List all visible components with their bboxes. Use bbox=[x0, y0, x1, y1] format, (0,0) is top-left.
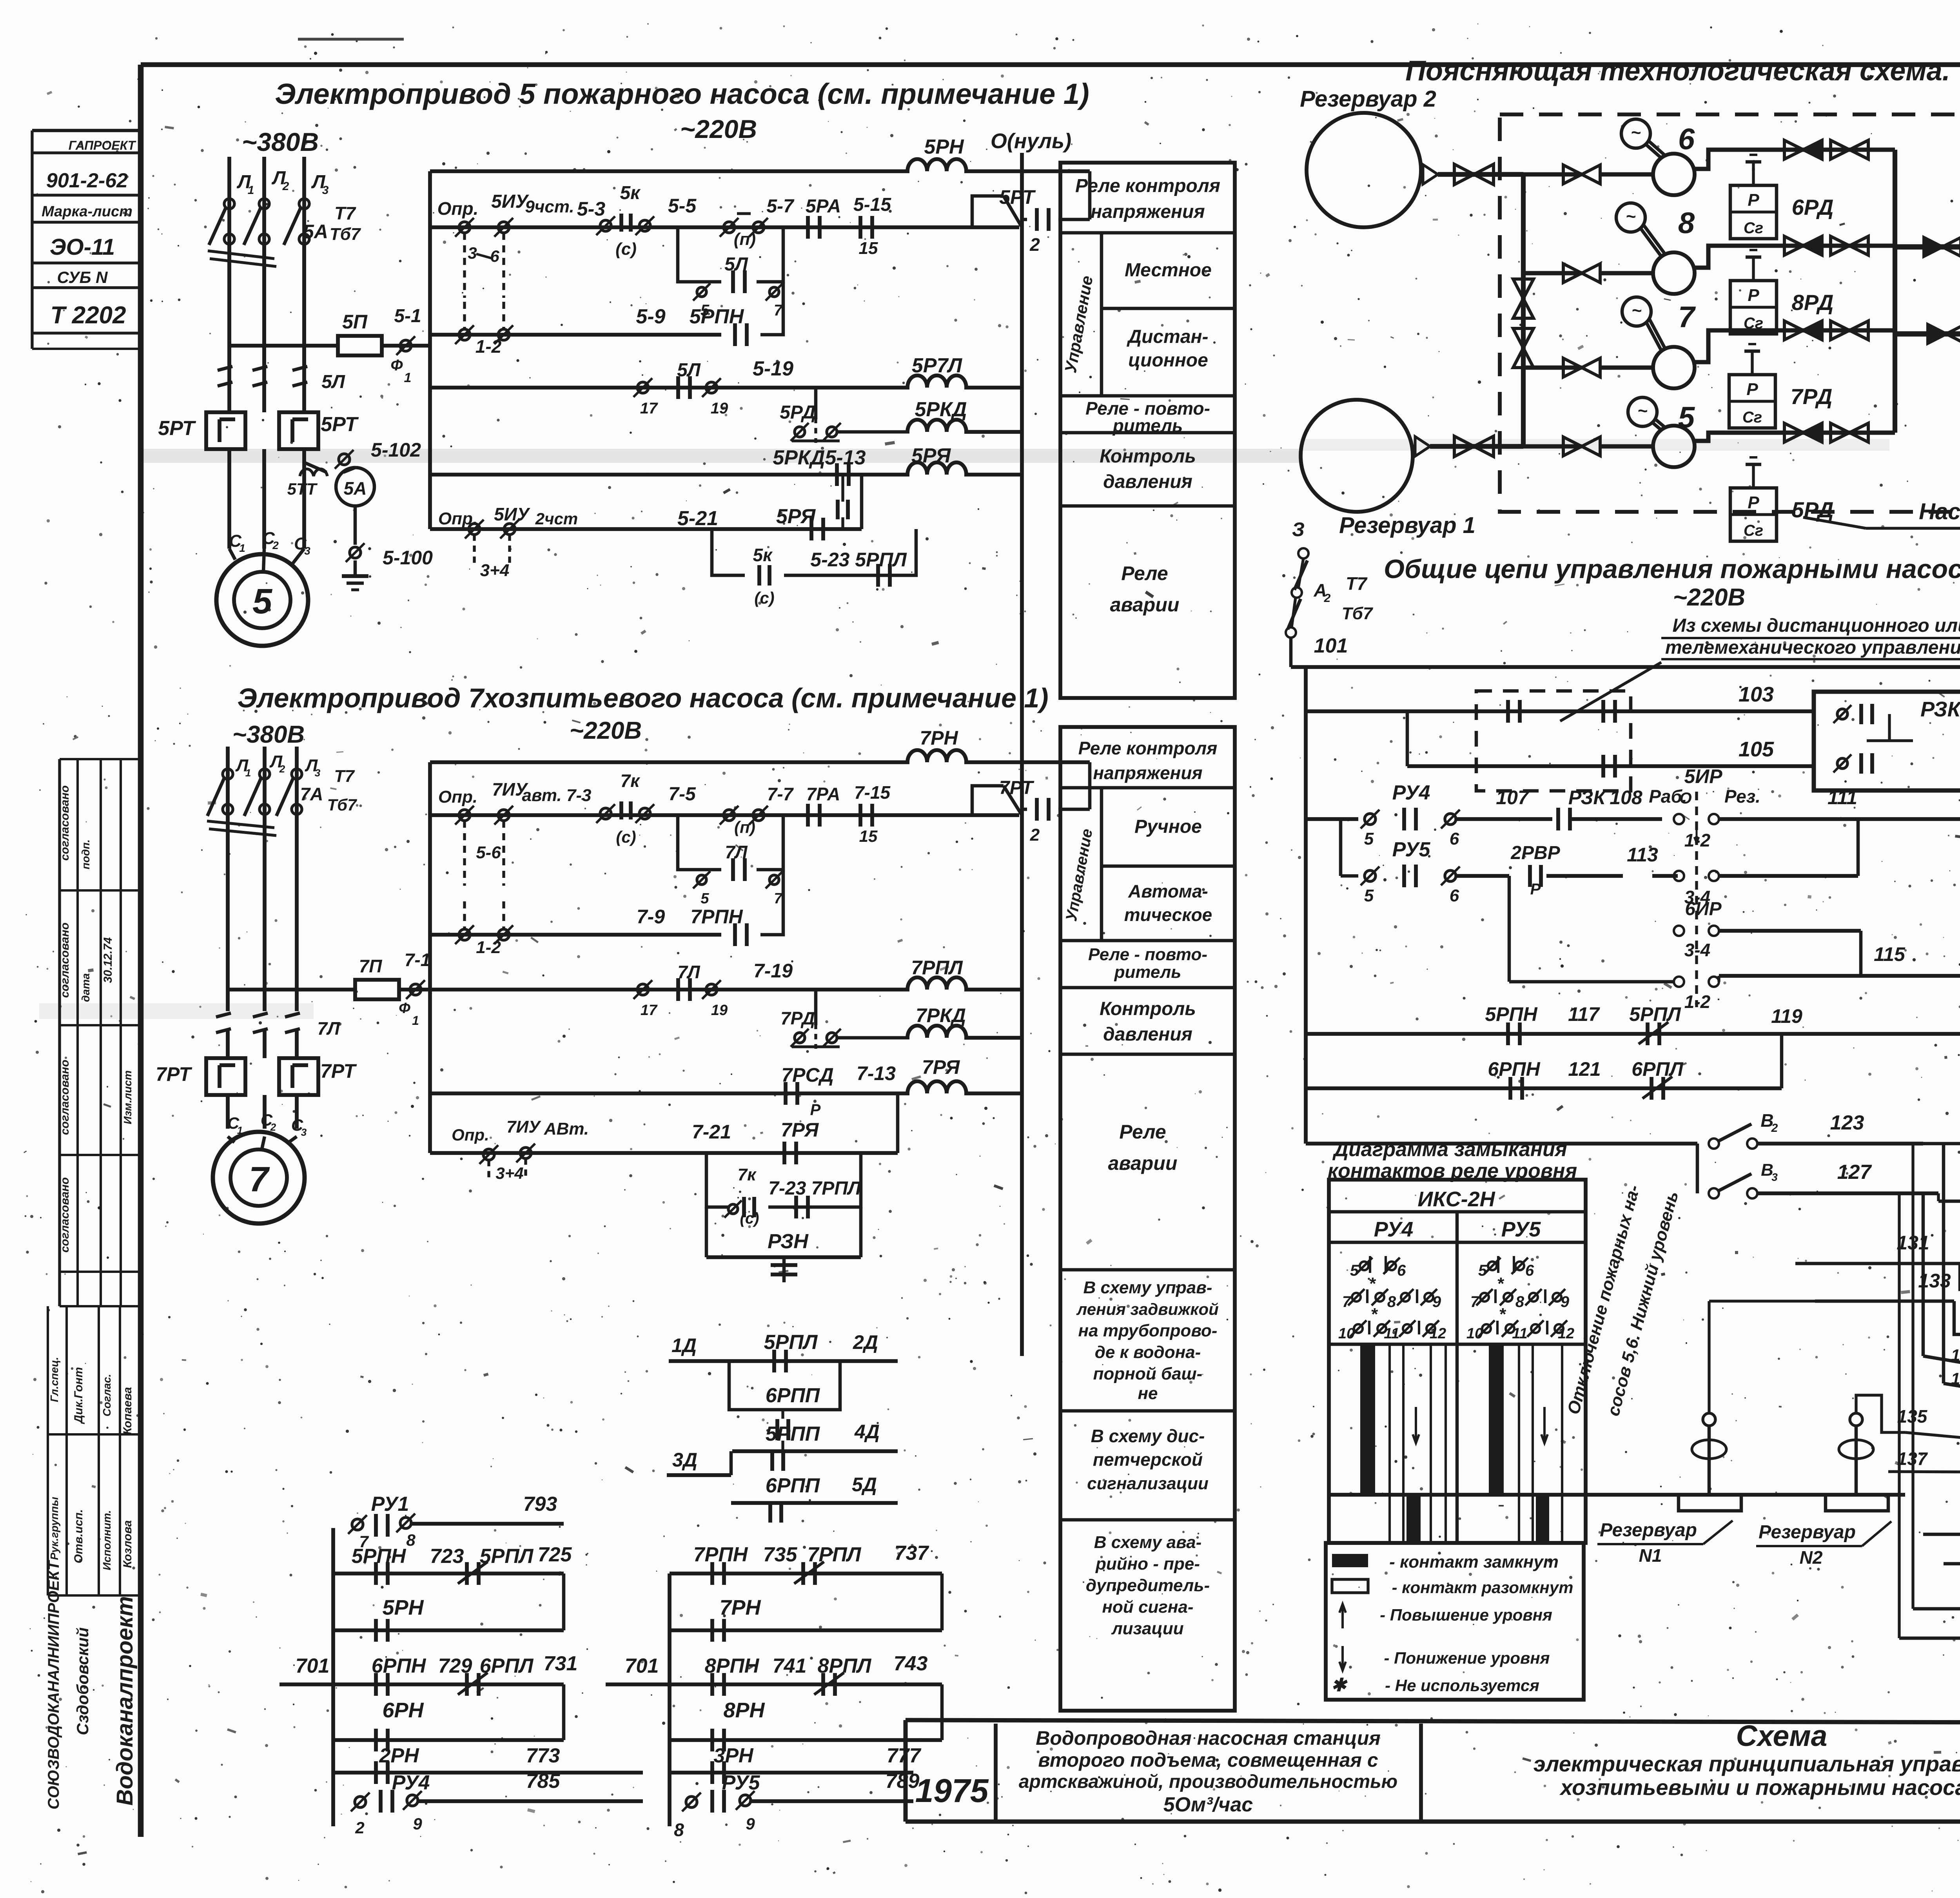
svg-text:~: ~ bbox=[1626, 207, 1636, 226]
stub 3D bbox=[667, 1473, 731, 1477]
svg-text:5РТ: 5РТ bbox=[158, 417, 196, 440]
reference lines to RU3 bbox=[1923, 1533, 1960, 1536]
svg-text:напряжения: напряжения bbox=[1093, 763, 1202, 783]
svg-text:Автома-: Автома- bbox=[1128, 881, 1208, 901]
svg-text:2: 2 bbox=[1771, 1122, 1778, 1135]
svg-text:7РЯ: 7РЯ bbox=[922, 1056, 960, 1078]
svg-text:5-3: 5-3 bbox=[577, 198, 605, 220]
rung RU1 793 bbox=[352, 1519, 363, 1530]
motor 5 outer circle bbox=[216, 554, 308, 646]
wire drop to 5RT contact bbox=[1088, 171, 1092, 219]
svg-text:723: 723 bbox=[430, 1545, 464, 1568]
ladder7 rung4 bbox=[430, 1151, 898, 1155]
motor 5 circle bbox=[1628, 397, 1657, 426]
svg-text:6РПЛ: 6РПЛ bbox=[1632, 1058, 1684, 1080]
svg-text:5П: 5П bbox=[342, 311, 368, 333]
svg-text:5Ом³/час: 5Ом³/час bbox=[1163, 1793, 1253, 1816]
svg-text:5ИР: 5ИР bbox=[1684, 765, 1722, 787]
svg-text:Марка-лист: Марка-лист bbox=[42, 203, 132, 220]
ladder5 top rail bbox=[430, 169, 909, 173]
IKS chart arrows bbox=[1413, 1407, 1419, 1443]
svg-text:7РТ: 7РТ bbox=[156, 1063, 192, 1085]
svg-text:ционное: ционное bbox=[1128, 350, 1208, 371]
rung1 contact (p) pump7 bbox=[724, 810, 735, 821]
svg-text:7-5: 7-5 bbox=[668, 784, 696, 805]
current transformer 5TT bbox=[304, 462, 327, 472]
impulse line 7РД bbox=[1751, 351, 1753, 375]
svg-text:5: 5 bbox=[1350, 1262, 1359, 1279]
branch 5RD bbox=[814, 388, 818, 419]
svg-text:117: 117 bbox=[1568, 1003, 1600, 1025]
svg-text:7-7: 7-7 bbox=[767, 784, 794, 804]
wire 5RD to coil 5RKD bbox=[837, 430, 909, 434]
svg-text:P: P bbox=[1748, 493, 1759, 512]
svg-text:5-21: 5-21 bbox=[677, 507, 718, 530]
svg-text:~380В: ~380В bbox=[242, 127, 319, 156]
branch 7RN bbox=[940, 1574, 944, 1630]
wire phases lower pump5 bbox=[227, 244, 231, 364]
svg-text:де к водона-: де к водона- bbox=[1095, 1343, 1201, 1362]
svg-text:5-19: 5-19 bbox=[753, 357, 793, 380]
rung 107 RU4 bbox=[1306, 817, 1358, 821]
svg-text:5: 5 bbox=[1478, 1262, 1487, 1279]
branch 5k seal rung bbox=[712, 529, 745, 575]
annotation cell upravlenie pump7 bbox=[1100, 788, 1103, 941]
float switch reservoir1 wires bbox=[1708, 1301, 1710, 1413]
svg-text:2: 2 bbox=[1029, 234, 1040, 255]
svg-text:7РПН: 7РПН bbox=[693, 1543, 748, 1566]
rung 105 bbox=[1407, 764, 1814, 768]
svg-text:Т7: Т7 bbox=[1346, 573, 1368, 594]
svg-text:7ИУ: 7ИУ bbox=[506, 1117, 541, 1137]
rail 101 and left rail E bbox=[1289, 638, 1293, 667]
pump 6 suction valve bbox=[1523, 172, 1582, 177]
svg-text:5ИУ: 5ИУ bbox=[494, 504, 531, 524]
svg-text:7Л: 7Л bbox=[317, 1018, 340, 1039]
rung 5RPP 4D bbox=[732, 1449, 898, 1453]
line 133 bbox=[1815, 1300, 1954, 1303]
pump 7 discharge bbox=[1693, 330, 1895, 362]
svg-text:8: 8 bbox=[406, 1531, 416, 1549]
svg-text:P: P bbox=[1748, 190, 1759, 210]
svg-text:111: 111 bbox=[1828, 787, 1857, 809]
branch 7k seal rung bbox=[706, 1153, 730, 1207]
pump 5 discharge gate valve bbox=[1831, 423, 1849, 442]
svg-text:5: 5 bbox=[701, 890, 709, 907]
long verticals from 123 125 bbox=[1911, 1144, 1914, 1609]
rung 3RN 777 bbox=[670, 1771, 913, 1775]
svg-text:7Л: 7Л bbox=[725, 842, 748, 862]
svg-text:735: 735 bbox=[763, 1543, 798, 1566]
svg-text:Резервуар 1: Резервуар 1 bbox=[1339, 513, 1475, 538]
svg-text:СОЮЗВОДОКАНАЛНИИПРОЕКТ: СОЮЗВОДОКАНАЛНИИПРОЕКТ bbox=[45, 1559, 62, 1809]
rung 7RPN 735 7RPL 737 bbox=[670, 1572, 942, 1575]
svg-text:Сздобовский: Сздобовский bbox=[73, 1627, 92, 1735]
svg-text:тическое: тическое bbox=[1124, 905, 1212, 925]
svg-text:793: 793 bbox=[523, 1493, 557, 1515]
svg-text:3+4: 3+4 bbox=[480, 561, 510, 580]
svg-text:7к: 7к bbox=[738, 1165, 757, 1184]
svg-text:Ручное: Ручное bbox=[1134, 816, 1202, 837]
svg-text:2: 2 bbox=[279, 763, 285, 775]
svg-text:6: 6 bbox=[490, 247, 499, 265]
svg-text:Сг: Сг bbox=[1744, 219, 1763, 237]
svg-text:1-2: 1-2 bbox=[1684, 992, 1711, 1012]
svg-text:5Л: 5Л bbox=[724, 254, 748, 275]
svg-text:2: 2 bbox=[272, 539, 279, 551]
svg-text:901-2-62: 901-2-62 bbox=[46, 169, 128, 192]
relay coil 5RYA bbox=[907, 462, 966, 475]
output pipe 2 dy150 bbox=[1895, 331, 1960, 336]
svg-text:6РД: 6РД bbox=[1792, 195, 1834, 219]
svg-text:3+4: 3+4 bbox=[495, 1164, 523, 1182]
svg-text:электрическая принципиальная: электрическая принципиальная управления bbox=[1534, 1751, 1960, 1776]
motor 5 inner circle bbox=[234, 572, 290, 628]
svg-text:сигнализации: сигнализации bbox=[1087, 1474, 1209, 1493]
pump 8 discharge check valve bbox=[1784, 236, 1803, 255]
svg-text:Из схемы дистанционного или: Из схемы дистанционного или bbox=[1672, 615, 1960, 636]
pressure relay box 8РД bbox=[1730, 281, 1777, 334]
svg-text:2: 2 bbox=[355, 1818, 364, 1837]
motor 6 circle bbox=[1621, 119, 1650, 148]
rung 115 coil 6RPN bbox=[1719, 974, 1960, 978]
motor 6 shaft bbox=[1645, 144, 1662, 159]
svg-text:731: 731 bbox=[544, 1652, 578, 1675]
svg-text:7-19: 7-19 bbox=[753, 960, 793, 982]
rung 2RN 773 bbox=[333, 1771, 643, 1775]
pump 7 suction valve bbox=[1523, 366, 1582, 370]
svg-text:15: 15 bbox=[859, 827, 878, 845]
svg-text:701: 701 bbox=[296, 1655, 330, 1677]
svg-text:5РН: 5РН bbox=[924, 136, 964, 158]
svg-text:Сг: Сг bbox=[1744, 522, 1763, 539]
svg-text:701: 701 bbox=[625, 1655, 659, 1677]
svg-text:5-6: 5-6 bbox=[476, 843, 501, 862]
svg-text:725: 725 bbox=[538, 1543, 572, 1566]
svg-text:Опр.: Опр. bbox=[452, 1126, 489, 1144]
svg-text:Реле: Реле bbox=[1119, 1121, 1166, 1143]
relay coil 7RYA bbox=[907, 1081, 966, 1093]
svg-text:лизации: лизации bbox=[1111, 1619, 1183, 1638]
knife switch 5AT bbox=[224, 199, 234, 209]
svg-text:1: 1 bbox=[412, 1013, 419, 1028]
IKS subheader RU4 RU5 bbox=[1455, 1212, 1459, 1543]
svg-text:107: 107 bbox=[1496, 787, 1530, 809]
svg-text:6: 6 bbox=[1525, 1262, 1534, 1279]
branch 8RN bbox=[940, 1684, 944, 1740]
branch 7L parallel bbox=[678, 815, 721, 870]
rung1 contact opr bbox=[459, 222, 470, 233]
ladder5 rung2 5L 5-19 bbox=[430, 386, 909, 390]
svg-text:5РПН: 5РПН bbox=[352, 1545, 407, 1568]
svg-text:5-100: 5-100 bbox=[383, 547, 433, 569]
pressure relay box 6РД bbox=[1730, 185, 1777, 239]
svg-text:авт. 7-3: авт. 7-3 bbox=[522, 786, 591, 805]
svg-text:737: 737 bbox=[895, 1542, 929, 1564]
knife switch 7A bbox=[223, 769, 233, 779]
svg-text:6: 6 bbox=[1397, 1262, 1406, 1279]
svg-text:19: 19 bbox=[711, 1002, 728, 1019]
contact 5RT with label 2 bbox=[1035, 208, 1039, 231]
svg-text:5РПЛ: 5РПЛ bbox=[480, 1545, 534, 1568]
svg-text:Тб7: Тб7 bbox=[330, 225, 361, 244]
svg-text:О(нуль): О(нуль) bbox=[991, 129, 1071, 153]
svg-text:7: 7 bbox=[249, 1160, 270, 1199]
svg-text:8: 8 bbox=[1678, 207, 1695, 240]
svg-text:105: 105 bbox=[1739, 738, 1774, 761]
legend level up bbox=[1339, 1604, 1346, 1628]
contact 5RYA seal vertical bbox=[841, 475, 844, 502]
relay coil 7RKD bbox=[907, 1026, 966, 1038]
svg-text:(с): (с) bbox=[754, 589, 774, 607]
svg-text:5-102: 5-102 bbox=[371, 439, 421, 461]
contact point 5-1 bbox=[400, 340, 411, 351]
svg-text:6РПП: 6РПП bbox=[766, 1384, 820, 1407]
svg-text:5: 5 bbox=[252, 582, 273, 621]
svg-text:7А: 7А bbox=[300, 784, 323, 804]
svg-text:Т7: Т7 bbox=[334, 203, 356, 223]
svg-text:7РД: 7РД bbox=[780, 1008, 815, 1028]
svg-text:5РКД: 5РКД bbox=[915, 398, 967, 421]
svg-text:5РПП: 5РПП bbox=[766, 1423, 820, 1445]
svg-text:Гл.спец.: Гл.спец. bbox=[48, 1357, 60, 1402]
relay coil 5RN bbox=[907, 159, 966, 171]
contact 2RVR bbox=[1528, 865, 1532, 887]
svg-text:РУ1: РУ1 bbox=[371, 1493, 409, 1515]
wires thermal to motor pump7 bbox=[226, 1095, 230, 1129]
svg-text:9: 9 bbox=[413, 1815, 422, 1833]
svg-text:7-9: 7-9 bbox=[637, 906, 665, 928]
motor 5 shaft bbox=[1652, 422, 1662, 431]
branch 6RPL box bbox=[729, 1361, 840, 1410]
svg-text:5-7: 5-7 bbox=[766, 196, 795, 217]
svg-text:7РПЛ: 7РПЛ bbox=[808, 1543, 862, 1566]
annotation row rele povtoritel pump5 bbox=[1060, 394, 1235, 398]
svg-text:1: 1 bbox=[245, 767, 251, 779]
annotation row rele povtoritel pump7 bbox=[1060, 939, 1235, 943]
wire drop to 7RT contact bbox=[1088, 762, 1092, 809]
pressure relay box 7РД bbox=[1729, 375, 1775, 428]
svg-text:аварии: аварии bbox=[1110, 594, 1180, 616]
svg-text:порной баш-: порной баш- bbox=[1093, 1364, 1203, 1383]
manifold cross valve lower bbox=[1513, 328, 1534, 348]
svg-text:5Л: 5Л bbox=[321, 372, 345, 392]
svg-text:2РВР: 2РВР bbox=[1510, 843, 1560, 863]
ladder7 rung1 bbox=[430, 813, 1019, 817]
svg-text:2: 2 bbox=[282, 180, 289, 193]
ladder5 rung1 bbox=[430, 225, 1019, 229]
pump 8 discharge bbox=[1693, 246, 1895, 268]
svg-text:Электропривод 7хозпитьевого н: Электропривод 7хозпитьевого насоса (см. … bbox=[237, 683, 1048, 713]
IKS table outline bbox=[1329, 1180, 1586, 1543]
svg-text:5Д: 5Д bbox=[852, 1474, 877, 1496]
svg-text:8: 8 bbox=[674, 1820, 684, 1840]
pump 8 circle bbox=[1653, 252, 1695, 294]
svg-text:5: 5 bbox=[1678, 401, 1695, 434]
svg-text:Исполнит.: Исполнит. bbox=[101, 1510, 113, 1570]
svg-text:115: 115 bbox=[1874, 943, 1906, 965]
group2 left rail bbox=[331, 1528, 335, 1826]
svg-text:5Р7Л: 5Р7Л bbox=[912, 354, 963, 377]
svg-text:7-23 7РПЛ: 7-23 7РПЛ bbox=[768, 1178, 861, 1199]
svg-text:6РПН: 6РПН bbox=[1488, 1058, 1540, 1080]
IKS legend box bbox=[1326, 1543, 1584, 1700]
relay coil 7RN bbox=[907, 750, 966, 762]
rung1 contact 5RA bbox=[806, 216, 810, 239]
svg-text:5РЯ: 5РЯ bbox=[911, 444, 951, 467]
svg-text:Реле - повто-: Реле - повто- bbox=[1088, 945, 1207, 964]
svg-text:телемеханического управления: телемеханического управления bbox=[1665, 637, 1960, 658]
svg-text:ГАПРОЕКТ: ГАПРОЕКТ bbox=[69, 138, 136, 152]
svg-text:Т7: Т7 bbox=[334, 767, 355, 786]
svg-text:101: 101 bbox=[1314, 634, 1348, 657]
motor leads pump5 bbox=[229, 549, 235, 560]
svg-text:6: 6 bbox=[1450, 829, 1459, 848]
svg-text:аварии: аварии bbox=[1108, 1152, 1178, 1174]
svg-text:3-4: 3-4 bbox=[1684, 940, 1710, 960]
IKS chart level line bbox=[1329, 1493, 1905, 1497]
svg-text:7-21: 7-21 bbox=[692, 1121, 731, 1143]
svg-text:6: 6 bbox=[1678, 123, 1695, 156]
wires thermal to motor pump5 bbox=[227, 449, 231, 549]
fuse 7P with line to ladder bbox=[228, 988, 355, 992]
svg-text:Контроль: Контроль bbox=[1100, 999, 1196, 1019]
svg-text:2: 2 bbox=[1324, 592, 1331, 605]
svg-text:5: 5 bbox=[1364, 829, 1374, 848]
signature table lower bbox=[48, 1433, 141, 1436]
svg-text:Опр.: Опр. bbox=[438, 509, 477, 528]
pump 6 circle bbox=[1653, 154, 1695, 195]
svg-text:N2: N2 bbox=[1800, 1547, 1823, 1568]
svg-text:Копаева: Копаева bbox=[121, 1387, 134, 1435]
motor leads pump7 bbox=[228, 1137, 234, 1142]
label 5-102 bbox=[339, 454, 350, 465]
svg-text:773: 773 bbox=[526, 1744, 560, 1767]
pump 8 suction valve bbox=[1523, 271, 1582, 276]
svg-text:127: 127 bbox=[1837, 1161, 1872, 1184]
svg-text:не: не bbox=[1138, 1384, 1158, 1403]
svg-text:ной сигна-: ной сигна- bbox=[1102, 1597, 1193, 1617]
svg-text:5к: 5к bbox=[620, 183, 641, 203]
ladder5 right bus bbox=[1020, 153, 1024, 1356]
svg-text:давления: давления bbox=[1103, 1024, 1192, 1045]
svg-text:Сг: Сг bbox=[1742, 409, 1762, 426]
svg-text:3РН: 3РН bbox=[713, 1744, 754, 1767]
svg-text:7П: 7П bbox=[359, 956, 383, 976]
motor 7 outer circle bbox=[213, 1132, 305, 1224]
svg-text:Р: Р bbox=[810, 1101, 821, 1118]
svg-text:- контакт замкнут: - контакт замкнут bbox=[1389, 1552, 1559, 1572]
svg-text:5-15: 5-15 bbox=[853, 194, 891, 215]
svg-text:ЭО-11: ЭО-11 bbox=[50, 234, 115, 260]
svg-text:РУ4: РУ4 bbox=[1392, 781, 1430, 804]
svg-text:Резервуар: Резервуар bbox=[1759, 1522, 1856, 1543]
svg-text:*: * bbox=[1368, 1274, 1376, 1293]
reservoir 2 circle bbox=[1307, 113, 1421, 227]
leader arrow remote bbox=[1560, 662, 1661, 721]
sheet border frame top bbox=[141, 62, 1960, 67]
ladder7 rung3 bbox=[430, 1091, 909, 1095]
rung 103 bbox=[1306, 709, 1814, 713]
ground wire and label 5-100 bbox=[354, 506, 357, 545]
svg-text:5ИУ: 5ИУ bbox=[491, 191, 529, 212]
svg-text:Ф: Ф bbox=[390, 357, 403, 374]
svg-text:рийно - пре-: рийно - пре- bbox=[1095, 1554, 1200, 1574]
svg-text:8РН: 8РН bbox=[723, 1699, 765, 1722]
IKS timing chart bars RU4 bbox=[1360, 1345, 1421, 1542]
svg-text:- Понижение уровня: - Понижение уровня bbox=[1384, 1649, 1550, 1667]
rung RU5 789 bbox=[686, 1796, 697, 1807]
IKS timing chart bars RU5 bbox=[1489, 1345, 1549, 1542]
svg-text:Соглас.: Соглас. bbox=[101, 1374, 113, 1417]
svg-text:(п): (п) bbox=[734, 818, 755, 836]
wire from selector 3-4 up bbox=[1719, 874, 1858, 878]
float switch reservoir2 wires bbox=[1856, 1395, 1905, 1432]
rung1 contact (p) bbox=[724, 222, 735, 233]
branch 7RD bbox=[814, 990, 818, 1025]
svg-text:(с): (с) bbox=[740, 1210, 759, 1227]
svg-text:(с): (с) bbox=[615, 239, 637, 259]
svg-text:5РТ: 5РТ bbox=[321, 413, 359, 436]
svg-text:3Д: 3Д bbox=[672, 1449, 697, 1471]
svg-text:Дистан-: Дистан- bbox=[1126, 326, 1208, 347]
svg-text:5к: 5к bbox=[753, 545, 773, 565]
title block outline bbox=[906, 1720, 1960, 1724]
impulse line 8РД bbox=[1752, 257, 1755, 281]
relay coil 7RPL bbox=[907, 977, 966, 990]
suction pipe from reservoir 2 bbox=[1423, 165, 1438, 184]
svg-text:19: 19 bbox=[711, 400, 728, 417]
svg-text:~220В: ~220В bbox=[1673, 584, 1745, 611]
contactor contacts 7L on phases bbox=[216, 1013, 231, 1017]
svg-text:*: * bbox=[1499, 1305, 1506, 1324]
svg-text:777: 777 bbox=[887, 1744, 922, 1767]
svg-text:1: 1 bbox=[248, 184, 254, 197]
svg-text:хозпитьевыми и пожарными на: хозпитьевыми и пожарными насосами. bbox=[1559, 1775, 1960, 1800]
svg-text:Насосная станция: Насосная станция bbox=[1919, 499, 1960, 524]
svg-text:РЗН: РЗН bbox=[768, 1230, 809, 1253]
ammeter 5A circle bbox=[336, 468, 374, 506]
wire phase L2 pump5 bbox=[262, 157, 266, 364]
pump 8 discharge gate valve bbox=[1831, 236, 1849, 255]
signature table middle bbox=[58, 759, 61, 1306]
legend contact closed bbox=[1332, 1554, 1368, 1567]
relay box RZK bbox=[1814, 692, 1960, 790]
motor 7 circle bbox=[1622, 297, 1651, 326]
svg-text:РУ5: РУ5 bbox=[722, 1771, 760, 1794]
svg-text:(п): (п) bbox=[734, 230, 756, 249]
wires into RU5 bbox=[1922, 1193, 1925, 1356]
pump 7 discharge gate valve bbox=[1831, 321, 1849, 340]
switch V2 bbox=[1709, 1138, 1719, 1149]
branch 5L parallel bbox=[678, 227, 721, 282]
svg-text:(с): (с) bbox=[616, 828, 636, 846]
wire phases pump7 bbox=[226, 747, 230, 1011]
svg-text:743: 743 bbox=[894, 1652, 928, 1675]
svg-text:8: 8 bbox=[1515, 1293, 1524, 1311]
svg-text:7РТ: 7РТ bbox=[320, 1060, 357, 1082]
pump 6 discharge check valve bbox=[1784, 140, 1803, 159]
svg-text:РУ5: РУ5 bbox=[1501, 1218, 1541, 1241]
ladder5 left rail bbox=[428, 171, 432, 529]
svg-text:5РПН: 5РПН bbox=[1485, 1003, 1537, 1025]
svg-text:~220В: ~220В bbox=[680, 114, 757, 143]
pump 7 discharge check valve bbox=[1784, 321, 1803, 340]
svg-text:на трубопрово-: на трубопрово- bbox=[1078, 1321, 1218, 1340]
scan gray streaks bbox=[141, 449, 1301, 463]
left rail common bbox=[1304, 667, 1308, 1144]
rung 701 6RPN 729 6RPL 731 bbox=[279, 1682, 333, 1686]
